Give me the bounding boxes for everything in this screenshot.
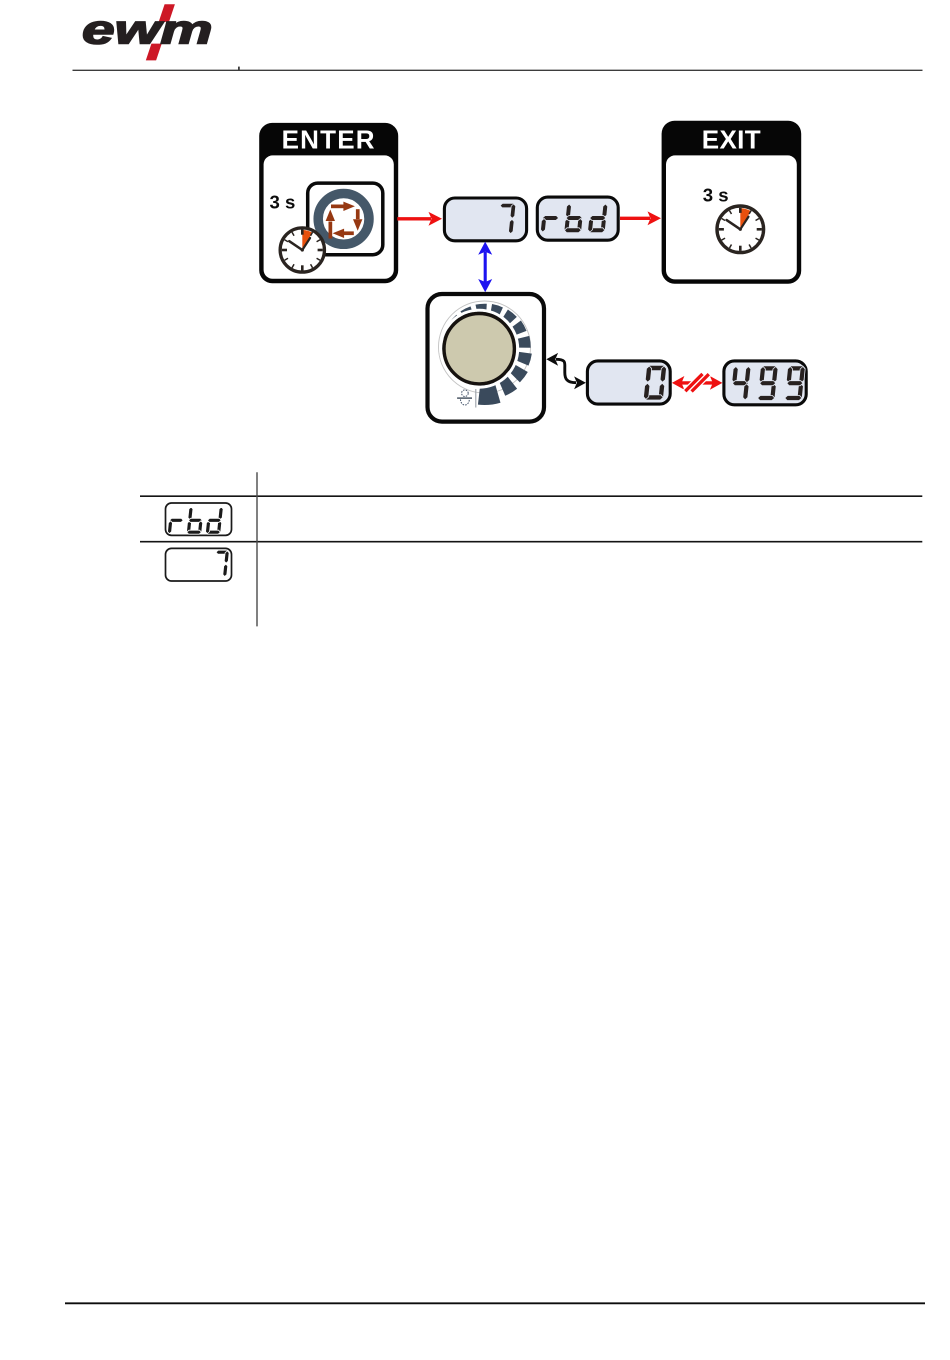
svg-text:EXIT: EXIT	[702, 124, 761, 154]
svg-text:ENTER: ENTER	[282, 124, 376, 154]
svg-text:ewm: ewm	[82, 6, 213, 52]
svg-text:3 s: 3 s	[270, 191, 296, 212]
svg-text:3 s: 3 s	[703, 184, 729, 205]
